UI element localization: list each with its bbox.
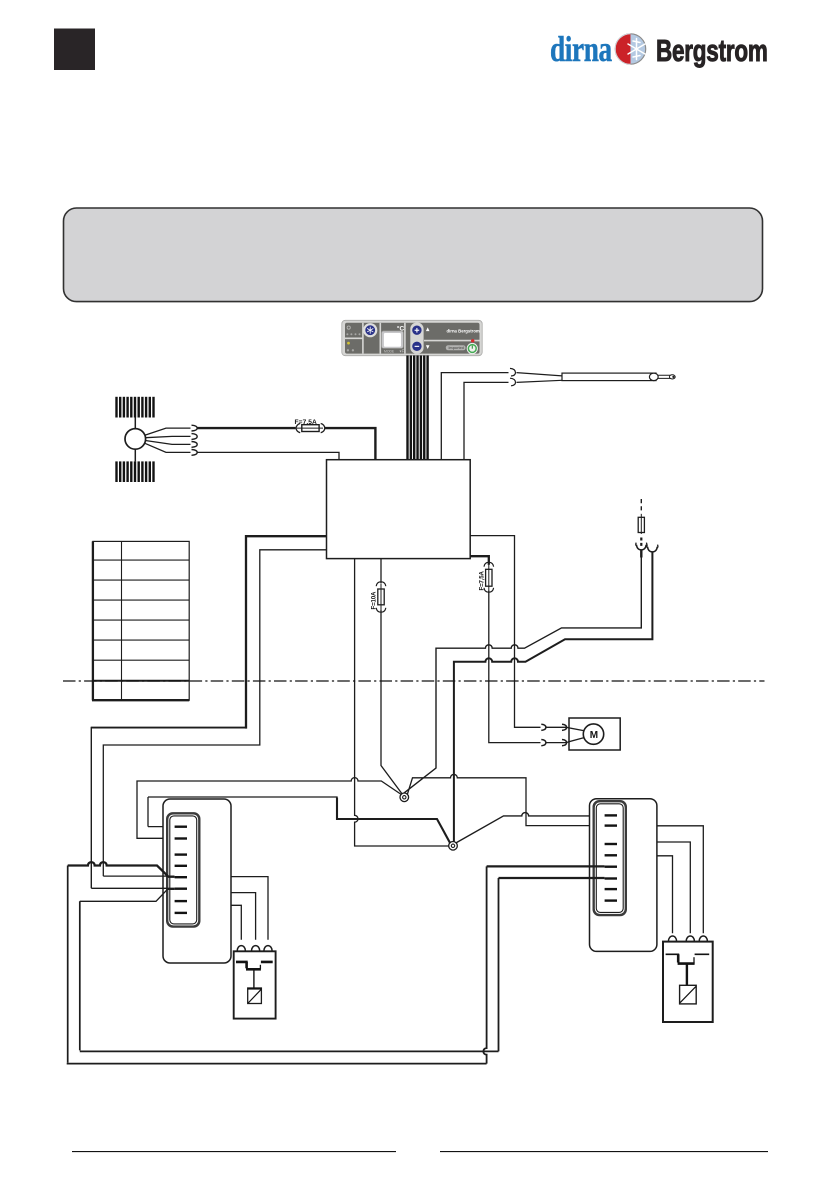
wire K1 to valve Y1 pin 2 (231, 893, 256, 940)
fuse F=7.5A blower (295, 419, 325, 433)
ribbon cable panel to control unit (406, 355, 429, 460)
resistor legend table (92, 541, 189, 700)
wire A2 bottom-right pin (thick) into fuse (470, 556, 489, 565)
relay K1 (163, 799, 231, 963)
valve Y1 pin connectors (237, 946, 272, 951)
logo dirna (550, 29, 612, 68)
ground rail lower (67, 866, 487, 1064)
svg-text:Imported: Imported (449, 346, 464, 350)
pressure switch Y2 (663, 942, 713, 1022)
wire node A to relay K1 pin 2 (137, 778, 401, 839)
wire A2 right pin 1 to motor M2 (470, 536, 540, 728)
optional supply dashed lead (640, 499, 642, 514)
wire K1 to valve Y1 pin 1 (231, 905, 241, 940)
fuse F=7.5A compressor (vertical) (478, 562, 493, 592)
relay K2 (590, 799, 657, 952)
wire blower signal (197, 452, 339, 459)
wire ground rail to K1 pin 5 (thick with hops) (68, 862, 175, 877)
footer rule right (440, 1151, 768, 1153)
node B junction (449, 842, 458, 851)
cabin temperature sensor B2 (510, 368, 675, 385)
wire K2 to valve Y2 pin 1 (657, 856, 673, 934)
wire blower feed (thick) (197, 428, 375, 460)
wire K2 to valve Y2 pin 3 (657, 826, 703, 934)
wire node A to relay K2 pin 2 (407, 774, 604, 825)
wire sensor lead 1 (441, 373, 508, 460)
svg-text:F=10A: F=10A (370, 591, 377, 609)
wire K2 to valve Y2 pin 2 (657, 842, 690, 933)
wire A2 left pin 1 (thick) to relay area (246, 536, 327, 728)
valve Y2 pin connectors (668, 936, 707, 941)
blower motor wires fan-out (145, 428, 191, 452)
wire supply branch 2 (thick, to node B) (454, 552, 653, 841)
svg-text:Bergstrom: Bergstrom (656, 33, 768, 68)
node A junction (400, 793, 409, 802)
wire ground riser to K2 pin 5 (thick) (487, 865, 605, 867)
supply fuse (638, 514, 644, 534)
connector fork right (648, 547, 658, 552)
connector fork left (636, 545, 646, 550)
footer rule left (72, 1151, 396, 1153)
wire node B to relay K2 pin 1 (456, 813, 605, 843)
blower motor M1 (115, 397, 154, 482)
wire A2 left pin 2 (103, 550, 326, 876)
note box (rounded grey) (64, 208, 763, 302)
wire A2 bottom pin 2 into fuse F=10A (380, 559, 382, 584)
svg-text:M: M (590, 730, 598, 741)
centerline (dash-dot) (63, 680, 765, 682)
pressure switch Y1 (234, 951, 276, 1018)
black corner square (54, 29, 95, 71)
wire supply branch 1 (to node A) (403, 550, 642, 794)
svg-text:MODE: MODE (384, 349, 395, 353)
wire A2 pin to K1 pin 5 (103, 875, 174, 877)
fuse F=10A (vertical) (370, 582, 385, 612)
wire rail 2 to K1 pin 6 (80, 889, 175, 901)
logo Bergstrom (656, 33, 768, 68)
svg-text:dirna: dirna (550, 29, 612, 68)
control panel A1 (climate control) (342, 320, 482, 355)
wire K1 to valve Y1 pin 3 (231, 877, 268, 940)
svg-text:dirna Bergstrom: dirna Bergstrom (447, 328, 480, 333)
logo emblem circle (615, 34, 645, 64)
wire A2 bottom pin 1 (long vertical) (355, 559, 449, 846)
wire sensor lead 2 (464, 382, 509, 459)
wire A2 pin to K1 pin 6 (91, 887, 174, 889)
wire fuse to motor M2 low terminal (489, 591, 541, 743)
control unit A2 (327, 460, 471, 559)
wire rail riser to K2 pin 6 (thick) (499, 877, 605, 879)
motor M2 (water valve motor) (562, 718, 621, 750)
svg-text:F=7,5A: F=7,5A (478, 571, 485, 591)
blower connector chevrons (192, 425, 198, 455)
wire relay K1 pin 1 to node B (thick) (148, 797, 450, 843)
svg-text:°C: °C (397, 325, 405, 333)
svg-text:▾F: ▾F (400, 348, 405, 353)
ground rail upper (80, 901, 499, 1051)
wire fuse F=10A to node A (381, 610, 402, 794)
M2 connector chevrons (541, 724, 566, 745)
